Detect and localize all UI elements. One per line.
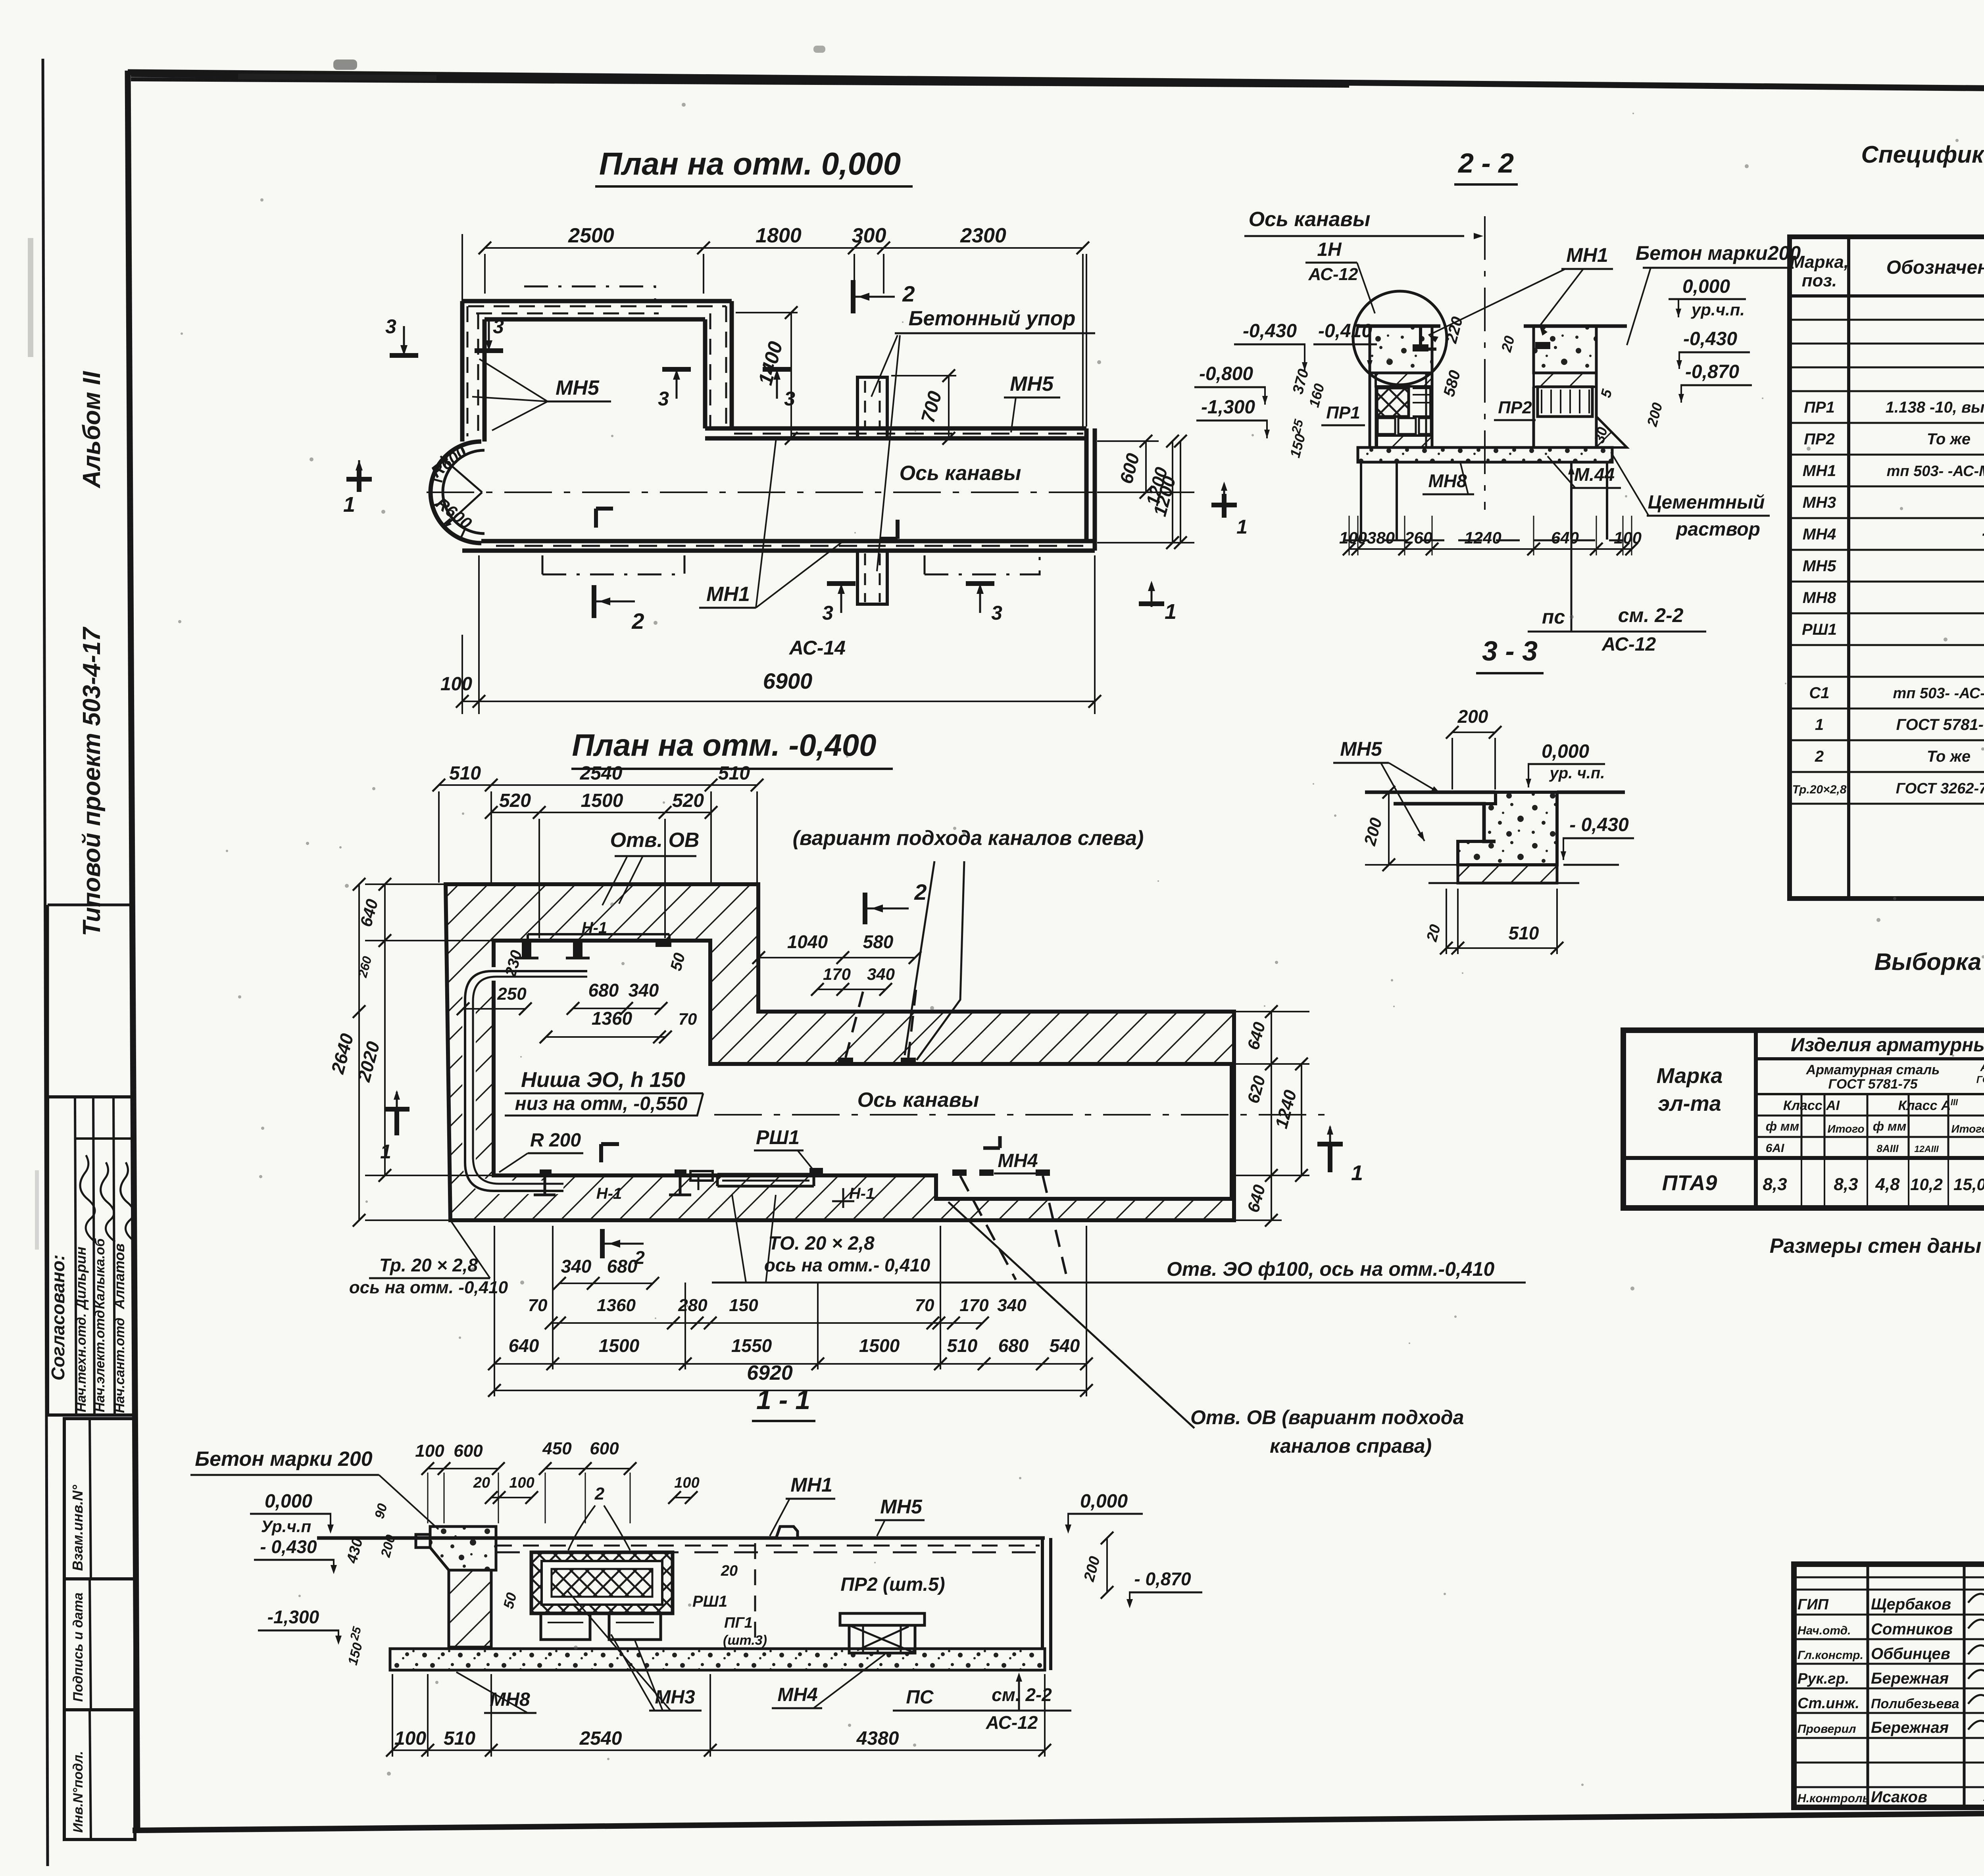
svg-text:Класс А: Класс А (1898, 1098, 1951, 1113)
svg-text:М.44: М.44 (1574, 464, 1615, 485)
svg-text:Арматурная сталь: Арматурная сталь (1806, 1062, 1940, 1077)
plan 0.000 dimension chain top (484, 254, 486, 294)
svg-text:600: 600 (590, 1439, 619, 1458)
svg-text:Сотников: Сотников (1871, 1621, 1953, 1638)
section 2-2 right hatch row (1534, 373, 1596, 387)
plan 0.000 upper room top wall (462, 299, 732, 303)
sheet frame top border (128, 72, 1984, 94)
svg-text:МН1: МН1 (706, 583, 750, 606)
svg-text:Инв.N°подл.: Инв.N°подл. (71, 1751, 86, 1833)
svg-text:-0,410: -0,410 (1318, 321, 1372, 342)
svg-text:Проверил: Проверил (1798, 1722, 1856, 1736)
plan 0.000 trench centerline (427, 492, 1188, 493)
svg-text:0,000: 0,000 (265, 1491, 312, 1512)
section 1-1 trench hidden level dash (496, 1551, 1040, 1553)
svg-text:170: 170 (959, 1296, 989, 1315)
svg-text:ур.ч.п.: ур.ч.п. (1691, 300, 1745, 319)
svg-text:70: 70 (528, 1296, 548, 1315)
svg-text:540: 540 (1050, 1335, 1080, 1356)
svg-text:Арм.сталь: Арм.сталь (1980, 1061, 1984, 1074)
plan -0.400 bottom dim chains (559, 1283, 653, 1284)
plan 0.000 section mark 1 right (1151, 583, 1153, 607)
plan -0.400 anchor items top edge (522, 941, 531, 958)
plan 0.000 vertical dim 1400 (736, 312, 798, 313)
svg-text:МН8: МН8 (1803, 589, 1836, 607)
svg-text:100: 100 (394, 1728, 426, 1749)
svg-text:260: 260 (1404, 528, 1432, 547)
section 3-3 top surface lines (1365, 791, 1394, 794)
svg-text:МН4: МН4 (1803, 526, 1836, 543)
svg-text:250: 250 (497, 984, 527, 1004)
svg-text:Марка: Марка (1657, 1064, 1723, 1088)
plan 0.000 section mark 2 bottom (592, 585, 596, 618)
svg-text:1500: 1500 (581, 790, 623, 811)
svg-text:РШ1: РШ1 (692, 1593, 727, 1610)
svg-text:2540: 2540 (580, 763, 623, 784)
svg-text:Нач.техн.отд.: Нач.техн.отд. (74, 1313, 89, 1412)
plan 0.000 section mark 1 left (357, 468, 361, 492)
svg-text:580: 580 (863, 931, 894, 952)
svg-text:0,000: 0,000 (1080, 1491, 1128, 1512)
svg-text:1Н: 1Н (1317, 239, 1342, 260)
svg-text:ось на отм. -0,410: ось на отм. -0,410 (349, 1278, 508, 1297)
svg-text:МН5: МН5 (1803, 557, 1836, 575)
svg-text:Подпись и дата: Подпись и дата (71, 1592, 86, 1702)
svg-text:Итого: Итого (1827, 1123, 1864, 1135)
svg-text:Н.контроль: Н.контроль (1798, 1792, 1869, 1805)
section 1-1 top dim rows (428, 1468, 498, 1469)
svg-text:МН4: МН4 (777, 1684, 817, 1705)
svg-text:Калыка.об: Калыка.об (92, 1238, 108, 1309)
plan -0.400 anchors right band top (838, 1058, 853, 1064)
svg-text:МН5: МН5 (880, 1496, 923, 1518)
svg-text:см. 2-2: см. 2-2 (992, 1684, 1052, 1705)
svg-text:Ст.инж.: Ст.инж. (1798, 1695, 1859, 1712)
plan -0.400 left dim lines (358, 884, 360, 1220)
svg-text:ПС: ПС (906, 1687, 934, 1708)
plan -0.400 right dim lines (1271, 1012, 1272, 1220)
svg-text:Марка,: Марка, (1790, 252, 1849, 272)
svg-text:2 - 2: 2 - 2 (1457, 148, 1514, 179)
svg-text:ГОСТ 5781-75: ГОСТ 5781-75 (1896, 716, 1984, 734)
svg-text:План на отм. 0,000: План на отм. 0,000 (599, 146, 901, 181)
svg-text:1: 1 (1351, 1161, 1363, 1185)
section 2-2 ground dash line (1345, 540, 1623, 541)
svg-text:ПР1: ПР1 (1326, 403, 1360, 422)
svg-text:8АІІІ: 8АІІІ (1877, 1142, 1899, 1154)
svg-text:пс: пс (1542, 606, 1565, 628)
plan 0.000 section mark 2 top (851, 280, 856, 313)
plan -0.400 grate РШ1 assembly (717, 1173, 814, 1176)
section 2-2 foundation slab (1358, 447, 1612, 462)
plan 0.000 dashed plate outline bottom left (542, 555, 684, 574)
svg-text:20: 20 (721, 1563, 738, 1579)
svg-text:20: 20 (473, 1475, 490, 1491)
plan -0.400 leaders to anchors right (905, 861, 934, 1055)
svg-text:0,000: 0,000 (1542, 741, 1589, 762)
section 1-1 left concrete abutment (430, 1527, 496, 1570)
svg-text:4380: 4380 (856, 1728, 899, 1749)
svg-text:4,8: 4,8 (1875, 1175, 1900, 1194)
svg-text:510: 510 (1509, 923, 1539, 943)
specification table grid (1790, 237, 1984, 899)
section 2-2 right wall anchor glyph (1535, 342, 1550, 349)
svg-text:Нач.элект.отд: Нач.элект.отд (92, 1310, 108, 1412)
svg-text:100: 100 (1614, 528, 1642, 547)
svg-text:МН1: МН1 (790, 1474, 832, 1496)
svg-text:тп 503- -АС-МН1: тп 503- -АС-МН1 (1887, 463, 1984, 480)
svg-text:МН1: МН1 (1803, 462, 1836, 480)
svg-text:АС-12: АС-12 (1308, 265, 1358, 284)
svg-text:Тр. 20 × 2,8: Тр. 20 × 2,8 (379, 1255, 478, 1275)
plan -0.400 step ledge right (934, 1175, 938, 1199)
svg-text:Обозначение: Обозначение (1886, 257, 1984, 278)
svg-text:Бетон марки 200: Бетон марки 200 (195, 1448, 372, 1471)
svg-text:70: 70 (679, 1010, 697, 1028)
svg-text:2: 2 (1815, 748, 1824, 765)
svg-text:3: 3 (784, 388, 795, 410)
svg-text:680: 680 (607, 1256, 638, 1277)
svg-text:100: 100 (1339, 528, 1367, 547)
svg-text:150: 150 (729, 1296, 758, 1315)
svg-text:12АІІІ: 12АІІІ (1914, 1144, 1939, 1154)
left margin upper box (48, 904, 134, 906)
plan 0.000 section marks 3 bottom (840, 586, 842, 613)
section 2-2 section mark 1 (1222, 494, 1227, 518)
svg-text:1500: 1500 (859, 1335, 900, 1356)
svg-text:АС-12: АС-12 (1601, 634, 1656, 655)
svg-text:Оббинцев: Оббинцев (1871, 1645, 1950, 1663)
svg-text:Взам.инв.N°: Взам.инв.N° (69, 1485, 86, 1571)
svg-text:Полибезьева: Полибезьева (1871, 1696, 1959, 1711)
svg-text:2300: 2300 (960, 224, 1006, 247)
svg-text:МН8: МН8 (1428, 470, 1467, 491)
svg-text:1040: 1040 (787, 931, 828, 952)
svg-text:ф мм: ф мм (1873, 1119, 1907, 1133)
svg-text:1 - 1: 1 - 1 (756, 1385, 810, 1415)
svg-text:Ось канавы: Ось канавы (1249, 208, 1371, 231)
svg-text:340: 340 (867, 965, 895, 983)
section 1-1 left wall hatch (449, 1570, 491, 1647)
section 1-1 dashed vertical mid (754, 1543, 756, 1646)
svg-text:200: 200 (1457, 706, 1488, 727)
svg-text:6920: 6920 (747, 1361, 793, 1384)
plan 0.000 upper room left wall (460, 301, 465, 442)
svg-text:Альбом II: Альбом II (78, 371, 106, 489)
stamp cell Взам.инв.N (64, 1419, 135, 1579)
svg-text:1: 1 (1165, 600, 1177, 624)
svg-text:Отв. ЭО ф100, ось на отм.-0,41: Отв. ЭО ф100, ось на отм.-0,410 (1167, 1258, 1495, 1280)
svg-text:Рук.гр.: Рук.гр. (1798, 1671, 1849, 1687)
section 2-2 ПР2 block (1538, 387, 1592, 417)
plan 0.000 section marks 3 middle (676, 372, 678, 399)
svg-text:поз.: поз. (1802, 271, 1837, 290)
svg-text:Дильрин: Дильрин (73, 1246, 89, 1310)
svg-text:ПР2 (шт.5): ПР2 (шт.5) (840, 1574, 945, 1595)
svg-text:100: 100 (509, 1475, 534, 1491)
svg-text:-0,430: -0,430 (1683, 328, 1737, 349)
section 2-2 left wall concrete (1370, 326, 1432, 373)
svg-text:эл-та: эл-та (1658, 1092, 1721, 1116)
svg-text:Щербаков: Щербаков (1871, 1596, 1951, 1613)
svg-text:-1,300: -1,300 (1201, 397, 1255, 418)
plan 0.000 right vertical dims 600 1200 (1097, 440, 1159, 442)
section 2-2 cement wedge (1596, 417, 1627, 447)
svg-text:- 0,870: - 0,870 (1134, 1569, 1191, 1589)
svg-text:2: 2 (631, 609, 644, 634)
approval block Согласовано (48, 1097, 134, 1415)
svg-text:АС-12: АС-12 (986, 1712, 1038, 1733)
svg-text:1: 1 (1236, 516, 1248, 538)
svg-text:Класс АІ: Класс АІ (1783, 1098, 1840, 1113)
svg-text:ГИП: ГИП (1798, 1596, 1829, 1613)
svg-text:15,0: 15,0 (1953, 1175, 1984, 1194)
svg-text:0,000: 0,000 (1682, 276, 1730, 297)
plan -0.400 niche recess line top (528, 933, 669, 935)
svg-text:2: 2 (902, 281, 915, 306)
svg-text:(шт.3): (шт.3) (723, 1633, 767, 1648)
svg-text:600: 600 (454, 1441, 483, 1461)
section 2-2 ПР1 lower boxes (1378, 418, 1395, 434)
svg-text:Ниша ЭО, h 150: Ниша ЭО, h 150 (521, 1068, 685, 1092)
svg-text:510: 510 (947, 1335, 978, 1356)
section 1-1 floor slab (390, 1649, 1045, 1670)
svg-text:ур. ч.п.: ур. ч.п. (1549, 764, 1605, 782)
svg-text:1: 1 (343, 493, 355, 517)
svg-text:ПГ1: ПГ1 (724, 1615, 753, 1631)
svg-text:МН3: МН3 (1803, 494, 1836, 511)
svg-text:340: 340 (997, 1296, 1027, 1315)
section 2-2 right wall concrete (1534, 326, 1596, 373)
svg-text:Н-1: Н-1 (849, 1185, 875, 1202)
svg-text:680: 680 (998, 1335, 1029, 1356)
section 2-2 slab legs below (1360, 462, 1362, 540)
plan -0.400 hatched walls (446, 884, 1234, 1220)
svg-text:8,3: 8,3 (1763, 1175, 1787, 1194)
svg-text:Ось канавы: Ось канавы (857, 1089, 979, 1112)
svg-text:- МН4: - МН4 (1982, 523, 1984, 543)
plan -0.400 section mark 1 right (1317, 1142, 1343, 1146)
svg-text:Изделия арматурные: Изделия арматурные (1791, 1035, 1984, 1056)
svg-text:70: 70 (915, 1296, 934, 1315)
section 2-2 detail circle (1353, 291, 1447, 385)
svg-text:МН4: МН4 (998, 1150, 1038, 1171)
svg-text:Исаков: Исаков (1871, 1788, 1927, 1806)
svg-text:2: 2 (914, 879, 927, 904)
svg-text:-1,300: -1,300 (267, 1607, 319, 1627)
svg-text:100: 100 (674, 1475, 699, 1491)
svg-text:см. 2-2: см. 2-2 (1618, 604, 1684, 626)
svg-text:Н-1: Н-1 (582, 919, 607, 937)
svg-text:520: 520 (672, 790, 704, 811)
svg-text:2500: 2500 (568, 224, 614, 247)
svg-text:300: 300 (852, 224, 886, 247)
svg-text:РШ1: РШ1 (1802, 621, 1837, 638)
section 2-2 left wall hatch band (1376, 373, 1432, 386)
section 2-2 right wall legs (1532, 387, 1535, 447)
section 3-3 concrete block (1458, 792, 1557, 865)
section 2-2 ПР1 lintel block (1377, 388, 1409, 417)
svg-text:каналов справа): каналов справа) (1270, 1435, 1432, 1457)
svg-text:Тр.20×2,8: Тр.20×2,8 (1792, 783, 1847, 796)
section 1-1 MH3 frame box (531, 1552, 673, 1613)
svg-text:ГОСТ 5781-75: ГОСТ 5781-75 (1828, 1077, 1918, 1092)
plan 0.000 concrete stop lower (857, 551, 887, 604)
svg-text:ГОСТ 5,1459-72: ГОСТ 5,1459-72 (1976, 1074, 1984, 1085)
svg-text:Отв. ОВ (вариант подхода: Отв. ОВ (вариант подхода (1190, 1406, 1464, 1429)
svg-text:640: 640 (509, 1335, 539, 1356)
svg-text:Спецификация изделий на пос: Спецификация изделий на пост тупиковый П… (1861, 141, 1984, 168)
plan 0.000 vertical dim 700 (891, 375, 956, 376)
svg-text:ф мм: ф мм (1766, 1119, 1799, 1133)
section 1-1 ПР2 assembly (840, 1613, 925, 1625)
svg-text:ПТА9: ПТА9 (1662, 1171, 1717, 1195)
plan 0.000 left semicircle end (431, 442, 481, 543)
svg-text:2: 2 (594, 1484, 605, 1503)
plan 0.000 dimension bottom 6900 (478, 555, 480, 714)
plan 0.000 upper room right wall (703, 319, 707, 428)
plan -0.400 section mark 2 bottom (600, 1229, 605, 1258)
svg-text:380: 380 (1367, 528, 1395, 547)
svg-text:ПР2: ПР2 (1804, 430, 1835, 448)
svg-text:Гл.констр.: Гл.констр. (1798, 1649, 1863, 1662)
svg-text:- 0,430: - 0,430 (1569, 814, 1629, 835)
svg-text:450: 450 (542, 1439, 572, 1458)
section 2-2 bottom dims (1349, 548, 1632, 550)
svg-text:Нач.отд.: Нач.отд. (1798, 1624, 1851, 1637)
svg-text:R 200: R 200 (530, 1130, 581, 1151)
section 2-2 left wall legs (1369, 373, 1371, 447)
section 3-3 dim 200 top (1452, 732, 1495, 733)
plan -0.400 MH4 anchors bottom right (952, 1169, 967, 1176)
svg-text:ІІІ: ІІІ (1951, 1097, 1958, 1107)
plan 0.000 trench top wall (705, 426, 1086, 431)
svg-text:Отв. ОВ: Отв. ОВ (610, 829, 700, 852)
svg-text:-0,430: -0,430 (1243, 321, 1297, 342)
svg-text:(вариант подхода каналов слев: (вариант подхода каналов слева) (793, 827, 1144, 850)
svg-text:низ на отм, -0,550: низ на отм, -0,550 (515, 1093, 688, 1114)
svg-text:Алпатов: Алпатов (111, 1243, 127, 1310)
svg-text:ТО. 20 × 2,8: ТО. 20 × 2,8 (768, 1233, 875, 1254)
svg-text:1360: 1360 (597, 1296, 636, 1315)
svg-text:680: 680 (588, 980, 619, 1000)
svg-text:100: 100 (440, 674, 472, 695)
scan smudge streaks left edge (28, 238, 33, 357)
title block signatures scribbles (1968, 1589, 1984, 1603)
section 2-2 left hatch under lintel (1377, 436, 1432, 447)
svg-text:АС-14: АС-14 (788, 637, 846, 659)
svg-text:3 - 3: 3 - 3 (1482, 636, 1538, 666)
svg-text:3: 3 (822, 602, 833, 624)
steel table grid (1623, 1030, 1984, 1208)
svg-text:1.138 -10, вып. 1: 1.138 -10, вып. 1 (1886, 399, 1984, 416)
sheet binding edge line (43, 59, 48, 1866)
svg-text:План на отм. -0,400: План на отм. -0,400 (572, 728, 876, 762)
plan 0.000 section marks 3 top (488, 321, 490, 348)
sheet frame bottom border (133, 1808, 1984, 1830)
svg-text:640: 640 (1551, 528, 1579, 547)
section 2-2 left wall МН1 angle (1421, 326, 1436, 349)
svg-text:-0,800: -0,800 (1199, 363, 1253, 384)
section 1-1 МН1 item on surface (776, 1527, 798, 1538)
section 1-1 right end wall (1041, 1538, 1044, 1649)
section 3-3 МН5 angle plate (1394, 792, 1496, 841)
svg-text:Согласовано:: Согласовано: (48, 1254, 68, 1381)
svg-text:510: 510 (444, 1728, 475, 1749)
plan 0.000 right end wall (1084, 428, 1089, 541)
plan -0.400 top dim chains (439, 784, 757, 786)
svg-text:1500: 1500 (599, 1335, 640, 1356)
stamp cell Инв.N подл (64, 1710, 135, 1840)
section 3-3 dim 200 left (1388, 792, 1390, 865)
svg-text:Типовой проект 503-4-17: Типовой проект 503-4-17 (78, 626, 106, 936)
svg-text:То же: То же (1927, 430, 1971, 448)
top frame scan smudge (131, 75, 913, 83)
svg-text:510: 510 (718, 763, 750, 784)
plan -0.400 section mark 2 top (863, 893, 867, 924)
approval signatures (80, 1155, 96, 1242)
svg-text:520: 520 (499, 790, 531, 811)
svg-text:МН5: МН5 (1340, 738, 1382, 760)
svg-text:170: 170 (823, 965, 851, 983)
svg-text:ПР1: ПР1 (1804, 399, 1835, 416)
svg-text:ПР2: ПР2 (1498, 398, 1532, 417)
svg-text:Н-1: Н-1 (596, 1185, 622, 1202)
svg-text:МН1: МН1 (1566, 244, 1608, 266)
svg-text:Бетонный упор: Бетонный упор (909, 307, 1076, 330)
svg-text:Цементный: Цементный (1648, 492, 1765, 513)
sheet frame left border (128, 71, 137, 1830)
svg-text:6900: 6900 (763, 668, 813, 693)
svg-text:1240: 1240 (1464, 528, 1501, 547)
section 1-1 dim 200 right (1106, 1538, 1108, 1592)
plan 0.000 R600 radius leaders (440, 456, 482, 492)
svg-text:10,2: 10,2 (1910, 1175, 1943, 1194)
svg-text:-0,870: -0,870 (1685, 361, 1739, 382)
plan 0.000 dashed plate outline bottom right (925, 555, 1040, 574)
svg-text:Нач.сант.отд: Нач.сант.отд (112, 1317, 127, 1413)
svg-text:6АІ: 6АІ (1766, 1142, 1784, 1155)
svg-text:340: 340 (629, 980, 659, 1000)
plan -0.400 dims above right band (759, 957, 915, 958)
section 3-3 hatch band below (1458, 865, 1557, 883)
svg-text:Итого: Итого (1951, 1123, 1984, 1135)
section 2-2 centerline (1484, 216, 1486, 510)
svg-text:Бережная: Бережная (1871, 1670, 1949, 1687)
svg-text:1800: 1800 (756, 224, 802, 247)
svg-text:раствор: раствор (1675, 519, 1760, 540)
svg-text:Ур.ч.п: Ур.ч.п (261, 1517, 311, 1536)
svg-text:3: 3 (991, 602, 1002, 624)
svg-text:ГОСТ 3262-75*: ГОСТ 3262-75* (1896, 780, 1984, 797)
svg-text:Ось канавы: Ось канавы (900, 462, 1021, 485)
svg-text:Размеры стен даны без обли: Размеры стен даны без облицовки керамиче… (1770, 1235, 1984, 1258)
svg-text:8,3: 8,3 (1834, 1175, 1858, 1194)
svg-text:340: 340 (561, 1256, 592, 1277)
plan -0.400 bottom edge anchors (540, 1169, 552, 1176)
svg-text:3: 3 (493, 315, 504, 338)
plan -0.400 pipe run in wall (469, 974, 587, 1187)
svg-text:тп 503- -АС-С1: тп 503- -АС-С1 (1893, 685, 1984, 702)
svg-text:РШ1: РШ1 (756, 1126, 800, 1148)
svg-text:Бетон марки200: Бетон марки200 (1636, 242, 1801, 264)
svg-text:ось на отм.- 0,410: ось на отм.- 0,410 (764, 1255, 930, 1275)
svg-text:МН8: МН8 (490, 1689, 530, 1710)
plan 0.000 dashed plate outline top (524, 286, 655, 301)
svg-text:Выборка стали на один элем: Выборка стали на один элемент, кг (1874, 949, 1984, 975)
section 1-1 ground top line (317, 1536, 1045, 1540)
svg-text:МН5: МН5 (1010, 373, 1054, 396)
